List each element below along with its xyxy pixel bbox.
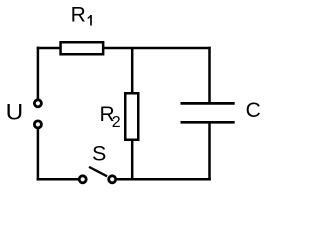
resistor R1 [61, 42, 104, 54]
label R1 subscript 1 [88, 15, 92, 26]
svg-text:S: S [92, 142, 106, 166]
wire top horizontal (node between U+, R1, R2 branch, C branch) [37, 47, 211, 50]
capacitor C top plate [181, 102, 235, 105]
source U top terminal [34, 100, 41, 107]
wire right vertical lower (C bottom plate down to bottom-right corner) [208, 122, 211, 180]
resistor R2 [125, 93, 138, 140]
switch S left contact [79, 176, 86, 183]
switch S blade (open) [89, 167, 107, 176]
svg-text:C: C [246, 99, 261, 122]
wire middle branch lower (R2 down to bottom wire) [131, 140, 134, 180]
wire middle branch upper (top wire down to R2) [131, 48, 134, 94]
wire bottom right segment (switch right contact to bottom-right corner) [117, 178, 211, 181]
svg-text:R: R [71, 4, 86, 27]
switch S right contact [109, 176, 116, 183]
wire left vertical upper (top corner down to U top terminal) [37, 47, 40, 99]
wire right vertical upper (top-right corner down to C top plate) [208, 47, 211, 104]
source U bottom terminal [34, 121, 41, 128]
capacitor C bottom plate [181, 121, 235, 124]
wire bottom left segment (corner to switch left contact) [37, 178, 79, 181]
svg-text:2: 2 [112, 114, 121, 131]
wire left vertical lower (U bottom terminal to bottom-left corner) [37, 129, 40, 181]
svg-text:U: U [6, 99, 24, 124]
